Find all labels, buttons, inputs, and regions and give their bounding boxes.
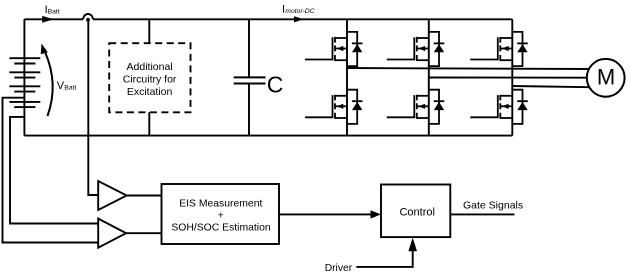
wire battery mid tap to lower amp input (outer): [3, 98, 99, 243]
wire dashed box bottom connector: [148, 112, 150, 135]
wire EIS box to Control with arrow: [279, 213, 372, 215]
wire phase C to motor: [512, 86, 589, 87]
V_Batt curved arrow: [45, 52, 53, 116]
transistor Q3 (leg2 high side): [387, 37, 429, 61]
junction dot under hop: [86, 18, 90, 22]
svg-text:Control: Control: [399, 207, 434, 219]
capacitor C plates: [234, 77, 266, 83]
svg-text:motor-DC: motor-DC: [285, 8, 314, 15]
svg-text:Driver: Driver: [325, 263, 353, 274]
svg-text:+: +: [218, 210, 224, 221]
transistor Q2 (leg1 low side): [305, 95, 347, 119]
dashed box: Additional Circuitry for Excitation: [109, 43, 190, 112]
svg-text:Batt: Batt: [64, 85, 76, 92]
wire gate signals output: [450, 213, 514, 215]
label Gate Signals: [463, 199, 523, 211]
motor M: [587, 59, 625, 97]
wire dashed box top connector: [148, 19, 150, 43]
transistor Q4 (leg2 low side): [387, 95, 429, 119]
amplifier A2 (voltage sense): [98, 219, 126, 248]
battery BT1 stem: [23, 19, 25, 135]
wire phase B to motor: [429, 77, 587, 79]
transistor Q6 (leg3 low side): [470, 95, 512, 119]
battery BT1 plates: [9, 58, 40, 107]
wire A1 output to EIS box: [127, 195, 162, 197]
wire A2 output to EIS box: [126, 232, 162, 234]
diode D6: [512, 90, 528, 124]
transistor Q5 (leg3 high side): [470, 37, 512, 61]
inverter leg 2 vertical: [428, 19, 430, 135]
wire driver to Control with arrow: [356, 251, 412, 267]
label I_Batt: [45, 4, 60, 16]
svg-text:M: M: [597, 65, 615, 90]
svg-text:Excitation: Excitation: [127, 86, 173, 98]
svg-text:Circuitry for: Circuitry for: [123, 74, 177, 86]
wire top rail from battery to inverter leg 3: [24, 18, 512, 20]
diode D1: [347, 32, 363, 66]
svg-text:EIS Measurement: EIS Measurement: [179, 198, 262, 209]
wire phase A to motor: [347, 68, 590, 69]
I_Batt arrow: [42, 16, 54, 23]
diode D3: [429, 32, 445, 66]
svg-text:Additional: Additional: [127, 61, 173, 73]
wire bottom rail: [24, 135, 512, 137]
inverter leg 3 vertical: [511, 19, 513, 135]
node hop (current-sense loop) on top rail: [83, 14, 93, 19]
capacitor C leads: [248, 19, 250, 135]
label I_motor-DC: [282, 4, 315, 16]
transistor Q1 (leg1 high side): [305, 37, 347, 61]
inverter leg 1 vertical: [346, 19, 348, 135]
svg-text:SOH/SOC Estimation: SOH/SOC Estimation: [171, 223, 271, 234]
diode D2: [347, 90, 363, 124]
label C: [267, 71, 284, 97]
diode D4: [429, 90, 445, 124]
amplifier A1 (current sense): [98, 181, 127, 210]
block: EIS Measurement + SOH/SOC Estimation: [162, 184, 280, 244]
wire battery bottom tap to lower amp input (inner): [10, 117, 98, 224]
svg-text:Batt: Batt: [48, 8, 60, 15]
label V_Batt: [57, 80, 77, 92]
I_motor-DC arrow: [294, 16, 304, 22]
svg-text:C: C: [267, 71, 284, 97]
block: Control: [381, 185, 450, 238]
diode D5: [512, 32, 528, 66]
label Driver: [325, 263, 353, 274]
wire hop node down to upper amp input: [88, 20, 98, 195]
svg-text:Gate Signals: Gate Signals: [463, 199, 523, 211]
